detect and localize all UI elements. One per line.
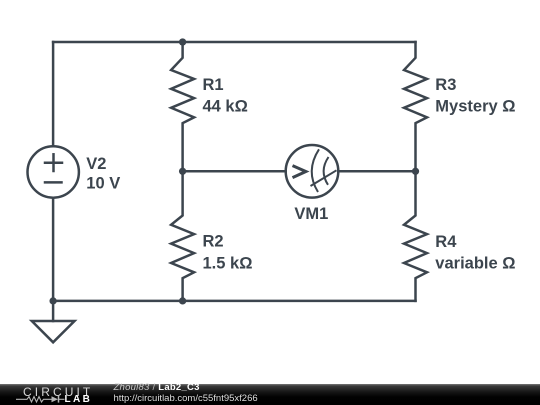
resistor R4 (404, 171, 427, 301)
footer bar (0, 384, 540, 405)
node middle left junction (179, 168, 186, 175)
wire middle left (183, 170, 286, 173)
node middle right junction (412, 168, 419, 175)
label VM1 (294, 205, 328, 223)
svg-text:R3: R3 (435, 76, 456, 94)
svg-text:1.5 kΩ: 1.5 kΩ (203, 254, 253, 272)
label V2 value (86, 155, 120, 193)
svg-text:R4: R4 (435, 233, 457, 251)
svg-text:V2: V2 (86, 155, 106, 173)
resistor R3 (404, 42, 427, 171)
node bottom middle junction (179, 297, 186, 304)
voltage source V2 (28, 146, 79, 197)
ground (32, 301, 75, 342)
svg-text:44 kΩ: 44 kΩ (203, 97, 248, 115)
wire bottom horizontal (53, 300, 415, 303)
voltmeter VM1 (286, 145, 339, 198)
svg-text:Mystery Ω: Mystery Ω (435, 97, 515, 115)
node top junction (179, 38, 186, 45)
label R1 value (203, 76, 248, 115)
wire left vertical lower (52, 198, 55, 301)
svg-text:R1: R1 (203, 76, 224, 94)
svg-text:variable Ω: variable Ω (435, 254, 515, 272)
resistor R1 (171, 42, 194, 171)
svg-text:10 V: 10 V (86, 175, 120, 193)
label R2 value (203, 233, 253, 273)
CircuitLab logo zigzag + diode (16, 395, 66, 404)
footer url (114, 393, 258, 404)
resistor R2 (171, 171, 194, 301)
wire top horizontal (53, 41, 415, 44)
footer author / title (114, 382, 200, 393)
CircuitLab logo text (23, 385, 93, 399)
svg-text:VM1: VM1 (294, 205, 328, 223)
label R3 value (435, 76, 515, 115)
wire middle right (338, 170, 415, 173)
node bottom ground junction (49, 297, 56, 304)
label R4 value (435, 233, 515, 272)
wire left vertical upper (52, 42, 55, 146)
svg-text:R2: R2 (203, 233, 224, 251)
